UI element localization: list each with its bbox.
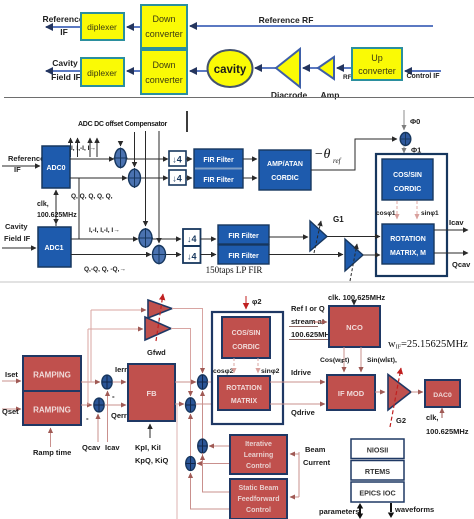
wire ref stream into NCO — [313, 321, 327, 323]
wire DAC clk input — [426, 408, 469, 436]
DAC0 — [425, 380, 460, 407]
node Cavity Field IF label — [51, 58, 81, 82]
separator line top — [4, 97, 474, 99]
wire IF MOD to G2 — [375, 391, 385, 393]
svg-text:Reference RF: Reference RF — [259, 15, 314, 25]
wire Reference IF output arrow — [46, 26, 81, 28]
node Q samples label — [71, 193, 113, 200]
RAMPING (I) — [23, 356, 81, 391]
svg-text:Learning: Learning — [244, 452, 274, 459]
ROTATION MATRIX M (receiver) — [382, 224, 434, 264]
wire down4 to FIR (cavity) — [201, 239, 217, 255]
wire Gfwd output (I) to drive adder — [172, 309, 203, 374]
wire Control IF input — [405, 71, 441, 80]
node Q samples label (ADC1) — [84, 266, 126, 273]
svg-text:clk,: clk, — [426, 413, 439, 422]
adder drive junction (I) — [198, 375, 208, 389]
wire Qdrive to IF MOD — [270, 404, 325, 417]
wire ILC sum riser (I) — [202, 391, 204, 439]
svg-text:NIOSII: NIOSII — [367, 446, 389, 455]
COS/SIN CORDIC (receiver) — [382, 159, 433, 200]
svg-text:Ref I or Q: Ref I or Q — [291, 304, 325, 313]
svg-text:I-I, I,-I, I→: I-I, I,-I, I→ — [67, 145, 96, 152]
svg-text:Down: Down — [152, 14, 175, 24]
node clk 100.625MHz label — [37, 201, 77, 219]
wire beam current to ILC — [290, 452, 299, 497]
ROTATION MATRIX (transmitter) — [218, 376, 270, 410]
wire parameters double arrow — [319, 503, 363, 519]
decimator down4 (I ref) — [169, 151, 186, 166]
svg-text:converter: converter — [145, 29, 183, 39]
svg-text:CORDIC: CORDIC — [232, 344, 260, 351]
wire phi2 input — [246, 296, 262, 309]
svg-text:Ierr: Ierr — [115, 365, 127, 374]
amplifier Amp — [318, 57, 339, 100]
svg-text:φ2: φ2 — [252, 297, 262, 306]
wire Reference IF into ADC0 — [2, 165, 40, 167]
wire G1 to rotation matrix (Q) — [363, 254, 380, 256]
wire cos phi2 dashed — [233, 358, 235, 373]
svg-text:FIR Filter: FIR Filter — [228, 233, 259, 240]
svg-text:Control IF: Control IF — [406, 73, 440, 80]
node Cavity Field IF (ADC input) label — [4, 222, 31, 243]
svg-text:G1: G1 — [333, 215, 344, 224]
wire waveforms arrow — [388, 503, 434, 518]
svg-text:RF: RF — [343, 74, 352, 81]
wire ADC1 Q output line — [71, 254, 181, 256]
svg-text:parameters: parameters — [319, 507, 359, 516]
svg-text:ADC DC offset Compensator: ADC DC offset Compensator — [78, 121, 168, 128]
svg-text:converter: converter — [358, 66, 396, 76]
svg-text:ref: ref — [333, 157, 342, 165]
wire FIR to G1 amp (Q) — [269, 254, 343, 256]
wire Idrive to IF MOD — [270, 368, 325, 382]
svg-text:sinφ2: sinφ2 — [261, 368, 280, 375]
svg-text:AMP/ATAN: AMP/ATAN — [267, 161, 303, 168]
FIR filter (cavity I) — [218, 225, 269, 244]
svg-text:100.625MHz: 100.625MHz — [291, 330, 334, 339]
svg-text:↓4: ↓4 — [187, 234, 197, 244]
svg-text:Qdrive: Qdrive — [291, 408, 315, 417]
wire FB output (I) — [175, 381, 196, 383]
svg-text:Cavity: Cavity — [52, 58, 78, 68]
node Beam Current label — [303, 445, 331, 467]
svg-text:ADC0: ADC0 — [46, 165, 65, 172]
wire RAMPING to error adder (I) — [81, 381, 100, 383]
svg-text:diplexer: diplexer — [87, 22, 117, 32]
wire ILC sum riser (Q) — [190, 414, 192, 456]
svg-text:150taps LP FIR: 150taps LP FIR — [206, 265, 263, 275]
wire feedforward output into adder — [197, 463, 229, 465]
svg-text:EPICS IOC: EPICS IOC — [359, 489, 395, 498]
COS/SIN CORDIC (transmitter) — [222, 317, 270, 358]
wire NCO cos output — [320, 347, 349, 372]
adder mixer4 — [152, 245, 167, 265]
wire Ierr to FB — [113, 365, 128, 382]
amplifier Gfwd (Q) — [145, 294, 171, 357]
adder drive junction (Q) — [186, 398, 196, 412]
container receiver rotation block — [376, 154, 447, 276]
container transmitter rotation block — [212, 312, 283, 424]
wire FB output (Q) — [175, 403, 184, 405]
diplexer (reference channel) — [81, 13, 124, 40]
adder ILC junction (I) — [198, 439, 208, 453]
svg-text:Static Beam: Static Beam — [238, 485, 278, 492]
wire offset feed into mixer3 — [145, 131, 147, 226]
amplifier Diacrode — [271, 49, 308, 100]
diplexer (cavity channel) — [81, 58, 124, 86]
wire Qcav feedback up — [82, 414, 101, 452]
node minus theta ref label — [314, 147, 342, 165]
svg-text:converter: converter — [145, 75, 183, 85]
svg-text:MATRIX: MATRIX — [231, 398, 258, 405]
svg-text:DAC0: DAC0 — [433, 392, 452, 399]
wire NCO sin output — [361, 347, 397, 372]
svg-text:Qcav: Qcav — [452, 260, 471, 269]
wire sin phi2 dashed — [257, 358, 259, 373]
NIOSII — [351, 439, 404, 459]
wire G1 to rotation matrix (I) — [327, 236, 380, 238]
wire Reference RF — [190, 15, 433, 26]
svg-text:Iterative: Iterative — [245, 441, 272, 448]
svg-text:RAMPING: RAMPING — [33, 371, 71, 380]
wire Icav feedback up — [105, 391, 120, 452]
svg-text:Q,-Q, Q, -Q,→: Q,-Q, Q, -Q,→ — [84, 266, 126, 273]
svg-text:COS/SIN: COS/SIN — [232, 330, 261, 337]
node G1 label — [333, 215, 344, 224]
wire Qcav output — [434, 253, 471, 269]
wire ADC1 I output line — [71, 238, 181, 240]
Static Beam Feedforward Control — [230, 479, 287, 519]
wire ILC output into adder — [209, 445, 229, 447]
node Reference IF (ADC input) label — [8, 154, 44, 174]
svg-text:KpQ, KiQ: KpQ, KiQ — [135, 456, 168, 465]
wire phi1 to container — [404, 146, 421, 155]
wire FB tap down — [176, 405, 178, 519]
node 150taps LP FIR label — [206, 265, 263, 275]
wire FIR to AMP/ATAN CORDIC — [243, 159, 257, 178]
svg-text:Cos(wIFt): Cos(wIFt) — [320, 357, 349, 365]
svg-text:FIR Filter: FIR Filter — [203, 177, 234, 184]
wire feedforward path below (I) — [203, 453, 230, 492]
wire cos phi1 dashed — [396, 201, 398, 219]
svg-text:Diacrode: Diacrode — [271, 90, 308, 100]
svg-text:Beam: Beam — [305, 445, 326, 454]
node sin phi2 label — [261, 368, 280, 375]
svg-text:ROTATION: ROTATION — [390, 236, 426, 243]
svg-text:Down: Down — [152, 60, 175, 70]
wire down-converter to diplexer — [127, 26, 141, 28]
wire drive adder to rotation matrix (Q) — [196, 403, 217, 405]
svg-text:Ramp time: Ramp time — [33, 448, 71, 457]
separator line middle — [0, 281, 474, 283]
amplifier Gfwd (I) — [148, 300, 172, 318]
svg-text:Feedforward: Feedforward — [237, 496, 279, 503]
wire clk between ADCs — [55, 190, 57, 226]
svg-text:-: - — [112, 392, 115, 401]
wire FIR to G1 amp (I) — [269, 236, 308, 238]
svg-text:Qerr: Qerr — [111, 411, 127, 420]
node I samples label (ADC1) — [89, 227, 120, 234]
svg-text:Sin(wⅠᴇt),: Sin(wⅠᴇt), — [367, 356, 397, 364]
adder phase summing node — [400, 132, 412, 146]
ADC0 — [42, 146, 70, 188]
wire amp to diacrode — [303, 67, 318, 69]
svg-text:Icav: Icav — [449, 218, 464, 227]
decimator down4 (cavity I and Q) — [183, 229, 201, 263]
svg-text:Φ0: Φ0 — [410, 117, 420, 126]
svg-text:CORDIC: CORDIC — [394, 186, 422, 193]
svg-text:-: - — [86, 414, 89, 423]
wire Gfwd tap riser (Q) — [87, 329, 89, 405]
svg-text:↓4: ↓4 — [172, 155, 182, 165]
wire phi0 input — [404, 110, 420, 130]
FIR filter (cavity Q) — [218, 245, 269, 264]
wire G2 to DAC0 — [411, 391, 423, 393]
svg-text:clk. 100.625MHz: clk. 100.625MHz — [328, 293, 385, 302]
svg-text:100.625MHz: 100.625MHz — [37, 212, 77, 219]
FB controller — [128, 364, 175, 421]
svg-text:↓4: ↓4 — [187, 252, 197, 262]
svg-text:COS/SIN: COS/SIN — [393, 172, 422, 179]
wire Gfwd input (Q) — [88, 328, 143, 330]
svg-text:100.625MHz: 100.625MHz — [426, 427, 469, 436]
wire vertical mark right of compensator label — [186, 111, 188, 132]
svg-text:Amp: Amp — [321, 90, 340, 100]
wire gains into FB — [135, 424, 168, 465]
adder mixer1 — [114, 148, 128, 169]
wire ramp time input — [33, 428, 71, 457]
Iterative Learning Control — [230, 435, 287, 474]
svg-text:Field IF: Field IF — [51, 72, 81, 82]
wire offset feed into mixer2 — [134, 132, 136, 167]
wire Gfwd output (Q) to drive adder — [171, 329, 191, 397]
wire Cavity Field IF output arrow — [46, 70, 81, 72]
svg-text:Idrive: Idrive — [291, 368, 311, 377]
node Reference IF label — [42, 14, 83, 37]
svg-text:NCO: NCO — [346, 323, 363, 332]
EPICS IOC — [351, 482, 404, 502]
svg-text:sinφ1: sinφ1 — [421, 210, 439, 217]
node Ref I or Q stream label — [289, 304, 334, 340]
RAMPING (Q) — [23, 391, 81, 425]
svg-text:Reference: Reference — [8, 154, 44, 163]
wire Qerr to FB — [105, 405, 127, 420]
wire Qset input — [2, 407, 21, 416]
svg-text:IF: IF — [60, 27, 68, 37]
wire tap from Q line down to ADC1 I line — [78, 178, 80, 239]
node ADC DC offset Compensator label — [78, 121, 168, 128]
adder ILC junction (Q) — [186, 457, 196, 471]
adder mixer3 — [138, 228, 153, 248]
wire Cavity Field IF into ADC1 — [2, 247, 36, 249]
wire feedforward path below (Q) — [191, 473, 230, 509]
svg-text:cosφ2: cosφ2 — [213, 368, 234, 375]
wire offset feed into mixer1 — [120, 141, 122, 146]
svg-text:cosφ1: cosφ1 — [376, 210, 396, 217]
wire drive adder to rotation matrix (I) — [208, 381, 217, 383]
IF MOD — [327, 375, 375, 410]
decimator down4 (Q ref) — [169, 170, 186, 185]
svg-text:diplexer: diplexer — [87, 68, 117, 78]
wire up-converter to amp, net RF — [337, 68, 352, 81]
svg-text:Iset: Iset — [5, 370, 18, 379]
ADC1 — [38, 227, 71, 267]
svg-text:IF MOD: IF MOD — [338, 389, 365, 398]
svg-text:Field IF: Field IF — [4, 234, 31, 243]
wire sin phi1 dashed — [416, 201, 418, 219]
up converter — [352, 48, 402, 80]
svg-text:Control: Control — [246, 463, 271, 470]
adder mixer2 — [128, 168, 142, 188]
svg-text:Reference: Reference — [42, 14, 83, 24]
svg-text:KpI, KiI: KpI, KiI — [135, 443, 161, 452]
svg-text:waveforms: waveforms — [394, 505, 434, 514]
wire Icav output — [434, 218, 468, 230]
svg-text:FIR Filter: FIR Filter — [203, 157, 234, 164]
wire ADC0 I output line — [70, 158, 168, 160]
svg-text:cavity: cavity — [214, 64, 247, 76]
svg-text:Current: Current — [303, 458, 331, 467]
wire down4 to FIR (ref) — [186, 159, 192, 178]
wire diacrode to cavity — [255, 67, 276, 69]
down converter (reference) — [141, 5, 187, 48]
svg-text:FB: FB — [147, 389, 158, 398]
svg-text:Qcav: Qcav — [82, 443, 101, 452]
wire Gfwd tap riser (I) — [90, 310, 92, 382]
svg-text:ADC1: ADC1 — [44, 245, 63, 252]
adder error junction (I) — [102, 375, 115, 401]
svg-text:FIR Filter: FIR Filter — [228, 253, 259, 260]
wire compensator feedback up-arrows — [71, 138, 98, 157]
NCO — [329, 306, 380, 347]
amplifier G1 (I) — [310, 221, 327, 253]
node cos phi1 label — [376, 210, 396, 217]
wire RAMPING to error adder (Q) — [81, 404, 92, 406]
svg-text:MATRIX, M: MATRIX, M — [390, 250, 426, 257]
svg-text:Up: Up — [371, 53, 383, 63]
node wIF label — [388, 339, 468, 351]
wire NCO clk input — [328, 293, 385, 305]
svg-text:CORDIC: CORDIC — [271, 175, 299, 182]
svg-text:ROTATION: ROTATION — [226, 385, 262, 392]
down converter (cavity) — [141, 50, 187, 94]
wire Gfwd input (I) — [91, 309, 146, 311]
svg-text:Control: Control — [246, 507, 271, 514]
wire ADC0 Q output line — [70, 177, 168, 179]
amplifier G2 — [388, 368, 411, 427]
svg-text:Q, Q, Q, Q, Q,: Q, Q, Q, Q, Q, — [71, 193, 113, 200]
svg-text:I,-I, I,-I, I→: I,-I, I,-I, I→ — [89, 227, 120, 234]
svg-text:Gfwd: Gfwd — [147, 348, 166, 357]
RTEMS — [351, 461, 404, 481]
wire theta ref to summing node — [311, 139, 397, 170]
AMP/ATAN CORDIC — [259, 150, 311, 190]
svg-text:Icav: Icav — [105, 443, 120, 452]
adder error junction (Q) — [86, 398, 104, 423]
svg-text:clk,: clk, — [37, 201, 49, 208]
svg-text:RAMPING: RAMPING — [33, 406, 71, 415]
svg-text:wIF=25.15625MHz: wIF=25.15625MHz — [388, 339, 468, 351]
svg-text:Qset: Qset — [2, 407, 19, 416]
wire Iset input — [2, 370, 21, 381]
wire down-converter2 to diplexer2 — [127, 70, 141, 72]
svg-text:↓4: ↓4 — [172, 174, 182, 184]
wire cavity to down-converter2 — [190, 70, 208, 72]
node cos phi2 label — [213, 368, 234, 375]
cavity — [208, 50, 253, 87]
wire offset feed into mixer4 — [158, 131, 160, 243]
svg-text:G2: G2 — [396, 416, 406, 425]
svg-text:Cavity: Cavity — [5, 222, 28, 231]
FIR filter (ref I) — [194, 149, 243, 188]
svg-text:−θ: −θ — [314, 147, 330, 162]
svg-text:RTEMS: RTEMS — [365, 467, 390, 476]
node sin phi1 label — [421, 210, 439, 217]
node I-I samples label — [67, 145, 96, 152]
amplifier G1 (Q) — [345, 239, 363, 281]
